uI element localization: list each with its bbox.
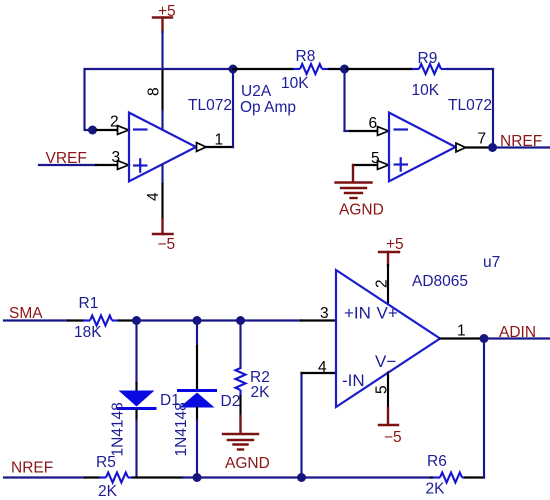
wire pin 5 to AGND	[353, 150, 389, 182]
wire NREF out	[493, 146, 550, 148]
svg-text:2K: 2K	[251, 384, 271, 401]
label D2	[221, 393, 241, 410]
wire +5 to pin 8	[161, 32, 163, 130]
label 1N4148 (D2)	[173, 402, 190, 456]
svg-text:10K: 10K	[412, 82, 440, 99]
pin 8 label	[146, 87, 163, 96]
svg-text:R8: R8	[296, 48, 316, 65]
pin 1 output AD8065	[440, 323, 484, 340]
resistor R6 2K	[426, 453, 485, 498]
net label NREF (top)	[500, 133, 542, 150]
op-amp U2A TL072 body	[129, 113, 196, 182]
op-amp U2B TL072 body	[389, 113, 456, 182]
op-amp u7 AD8065 body	[336, 270, 440, 407]
junction dot pin4 branch	[297, 473, 306, 482]
pin 7 output U2B	[456, 131, 488, 152]
junction dot ADIN	[480, 334, 489, 343]
net label NREF (bottom)	[11, 460, 53, 477]
junction dot D2/NREF	[193, 473, 202, 482]
wire R2 to AGND	[239, 416, 241, 434]
label D1	[160, 392, 180, 409]
svg-text:AGND: AGND	[225, 455, 270, 472]
net label VREF	[46, 150, 87, 167]
label U2A	[241, 83, 272, 100]
junction dot feedback pin2	[88, 126, 97, 135]
svg-text:8: 8	[146, 87, 163, 96]
svg-text:R6: R6	[427, 453, 447, 470]
power symbol +5 (top)	[153, 3, 176, 32]
pin 1 output U2A	[197, 69, 234, 151]
junction dot node R8/R9/pin6	[340, 65, 349, 74]
ground AGND (top)	[336, 183, 384, 219]
svg-text:1: 1	[215, 132, 224, 149]
svg-text:AD8065: AD8065	[412, 273, 468, 290]
wire R9 right down to pin 7 node	[492, 69, 494, 148]
svg-text:2: 2	[110, 114, 119, 131]
wire pin 6	[345, 69, 389, 135]
junction dot node NREF out	[488, 143, 497, 152]
svg-text:4: 4	[318, 359, 327, 376]
label Op Amp	[240, 99, 296, 116]
pin 2 wire	[97, 114, 129, 135]
svg-text:TL072: TL072	[448, 97, 492, 114]
svg-text:NREF: NREF	[11, 460, 53, 477]
wire NREF rail	[183, 476, 431, 478]
svg-text:2K: 2K	[98, 483, 118, 500]
svg-text:TL072: TL072	[188, 97, 232, 114]
svg-text:R1: R1	[79, 295, 99, 312]
svg-text:ADIN: ADIN	[499, 324, 536, 341]
power symbol -5 (under U2A)	[153, 234, 175, 253]
wire feedback loop U2A output to pin 2	[85, 69, 234, 130]
svg-text:7: 7	[478, 131, 487, 148]
label TL072 (U2A)	[188, 97, 232, 114]
svg-text:3: 3	[112, 149, 121, 166]
resistor R8 10K	[233, 48, 345, 92]
wire ADIN out	[484, 337, 550, 339]
svg-text:Op Amp: Op Amp	[240, 99, 296, 116]
ground AGND (bottom)	[223, 434, 270, 472]
svg-text:18K: 18K	[74, 324, 102, 341]
pin 4 wire to -5	[161, 165, 163, 234]
wire VREF / pin 3	[39, 149, 129, 169]
net label SMA	[9, 305, 43, 322]
svg-text:−5: −5	[158, 236, 176, 253]
svg-text:1: 1	[457, 323, 466, 340]
wire SMA rail to pin 3	[137, 305, 337, 322]
wire R6 up to ADIN node	[483, 339, 485, 478]
power symbol -5 (AD8065)	[379, 425, 402, 446]
junction dot R1/D1	[132, 316, 141, 325]
resistor R2 2K (vertical)	[236, 321, 271, 417]
svg-text:+5: +5	[386, 236, 404, 253]
svg-text:U2A: U2A	[241, 83, 272, 100]
diode D2 1N4148	[177, 321, 217, 478]
junction dot node output U2A / R8	[229, 65, 238, 74]
pin 5 wire AD8065 to -5	[374, 373, 391, 426]
svg-text:u7: u7	[483, 254, 500, 271]
svg-text:-IN: -IN	[342, 371, 365, 390]
junction dot rail/D2	[193, 316, 202, 325]
pin 2 wire AD8065	[374, 265, 391, 304]
resistor R1 18K	[4, 295, 137, 341]
svg-text:AGND: AGND	[339, 202, 384, 219]
diode D1 1N4148	[117, 321, 157, 478]
power symbol +5 (AD8065)	[379, 236, 404, 265]
label AD8065	[412, 273, 468, 290]
resistor R9 10K	[345, 50, 494, 99]
wire pin 4 AD8065	[302, 359, 337, 478]
svg-text:5: 5	[371, 150, 380, 167]
svg-text:−5: −5	[384, 429, 402, 446]
svg-text:+IN: +IN	[344, 304, 371, 323]
net label ADIN	[499, 324, 536, 341]
svg-text:V−: V−	[375, 352, 396, 371]
svg-text:3: 3	[320, 305, 329, 322]
svg-text:D2: D2	[221, 393, 241, 410]
label 1N4148 (D1)	[110, 402, 127, 456]
svg-text:NREF: NREF	[500, 133, 542, 150]
resistor R5 2K	[4, 454, 183, 500]
svg-text:5: 5	[374, 385, 391, 394]
svg-text:R9: R9	[418, 50, 438, 67]
svg-text:10K: 10K	[281, 75, 309, 92]
label u7	[483, 254, 500, 271]
pin 4 label	[145, 192, 162, 201]
label TL072 (U2B)	[448, 97, 492, 114]
svg-text:1N4148: 1N4148	[110, 402, 127, 456]
junction dot rail/R2	[236, 316, 245, 325]
svg-text:6: 6	[369, 115, 378, 132]
svg-text:V+: V+	[377, 304, 398, 323]
svg-text:2K: 2K	[426, 481, 446, 498]
svg-text:R5: R5	[96, 454, 116, 471]
svg-text:4: 4	[145, 192, 162, 201]
svg-text:2: 2	[374, 279, 391, 288]
svg-text:1N4148: 1N4148	[173, 402, 190, 456]
